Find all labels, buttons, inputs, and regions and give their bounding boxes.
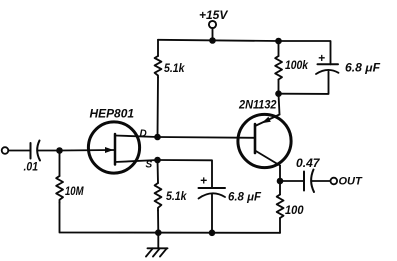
wire top rail to C2 xyxy=(279,41,331,64)
OUT terminal xyxy=(331,178,338,185)
wire R3 to bottom rail xyxy=(157,211,159,233)
node D junction xyxy=(154,134,161,141)
wire S node to C3 corner xyxy=(158,160,213,188)
wire collector to R5 xyxy=(279,181,281,195)
capacitor C2 6.8uF xyxy=(316,64,339,74)
svg-text:0.47: 0.47 xyxy=(296,156,321,170)
wire top rail xyxy=(158,40,279,41)
node emitter junction xyxy=(275,90,282,97)
svg-text:+: + xyxy=(318,51,325,65)
svg-text:OUT: OUT xyxy=(339,176,364,188)
node bottom rail C3 xyxy=(209,230,216,237)
svg-text:10M: 10M xyxy=(65,184,84,198)
wire C2 to emitter node xyxy=(279,72,329,94)
svg-text:6.8 μF: 6.8 μF xyxy=(345,63,381,75)
wire R4 to emitter node xyxy=(278,80,280,94)
node top rail junction xyxy=(209,37,216,44)
node gate junction xyxy=(56,147,63,154)
wire left branch top xyxy=(157,40,159,56)
svg-text:+: + xyxy=(200,174,207,188)
wire R5 to bottom rail xyxy=(279,218,281,233)
wire R1 to D node xyxy=(157,78,160,138)
transistor Q2 2N1132 xyxy=(238,94,291,181)
node S junction xyxy=(154,157,161,164)
svg-text:5.1k: 5.1k xyxy=(166,189,188,203)
node bottom rail R3 xyxy=(155,229,162,236)
wire gate node down xyxy=(59,151,61,177)
node collector junction xyxy=(277,178,284,185)
svg-text:HEP801: HEP801 xyxy=(90,107,135,121)
svg-text:5.1k: 5.1k xyxy=(164,61,186,75)
resistor R2 10M xyxy=(56,176,63,203)
svg-text:D: D xyxy=(140,128,147,139)
resistor R5 100 xyxy=(277,195,284,219)
svg-text:100k: 100k xyxy=(285,58,309,72)
wire D node to Q2 base xyxy=(158,136,256,139)
wire collector to C4 xyxy=(280,180,304,182)
svg-text:.01: .01 xyxy=(24,160,39,174)
wire +15V terminal to top rail xyxy=(212,28,214,40)
svg-text:6.8 μF: 6.8 μF xyxy=(228,192,262,204)
transistor Q1 HEP801 (JFET) xyxy=(60,122,158,173)
wire C4 to OUT xyxy=(312,180,331,182)
wire C3 to bottom rail xyxy=(211,194,213,233)
capacitor C1 .01 xyxy=(31,141,41,161)
input terminal xyxy=(2,147,9,154)
resistor R1 5.1k xyxy=(155,56,162,78)
wire R2 to bottom rail xyxy=(60,203,281,233)
svg-text:S: S xyxy=(146,159,153,170)
svg-text:100: 100 xyxy=(285,203,304,217)
svg-text:+15V: +15V xyxy=(199,8,228,22)
wire R3 top xyxy=(157,160,160,183)
svg-text:2N1132: 2N1132 xyxy=(238,98,277,112)
wire C1 to gate node xyxy=(38,150,60,152)
node top right junction xyxy=(275,38,282,45)
resistor R3 5.1k xyxy=(155,183,162,211)
capacitor C4 0.47 xyxy=(304,170,314,193)
capacitor C3 6.8uF xyxy=(199,188,226,199)
resistor R4 100k xyxy=(275,56,282,80)
+15V supply terminal xyxy=(209,21,216,28)
wire top right to R4 xyxy=(278,41,280,56)
ground xyxy=(146,233,168,257)
wire input to C1 xyxy=(8,150,30,152)
